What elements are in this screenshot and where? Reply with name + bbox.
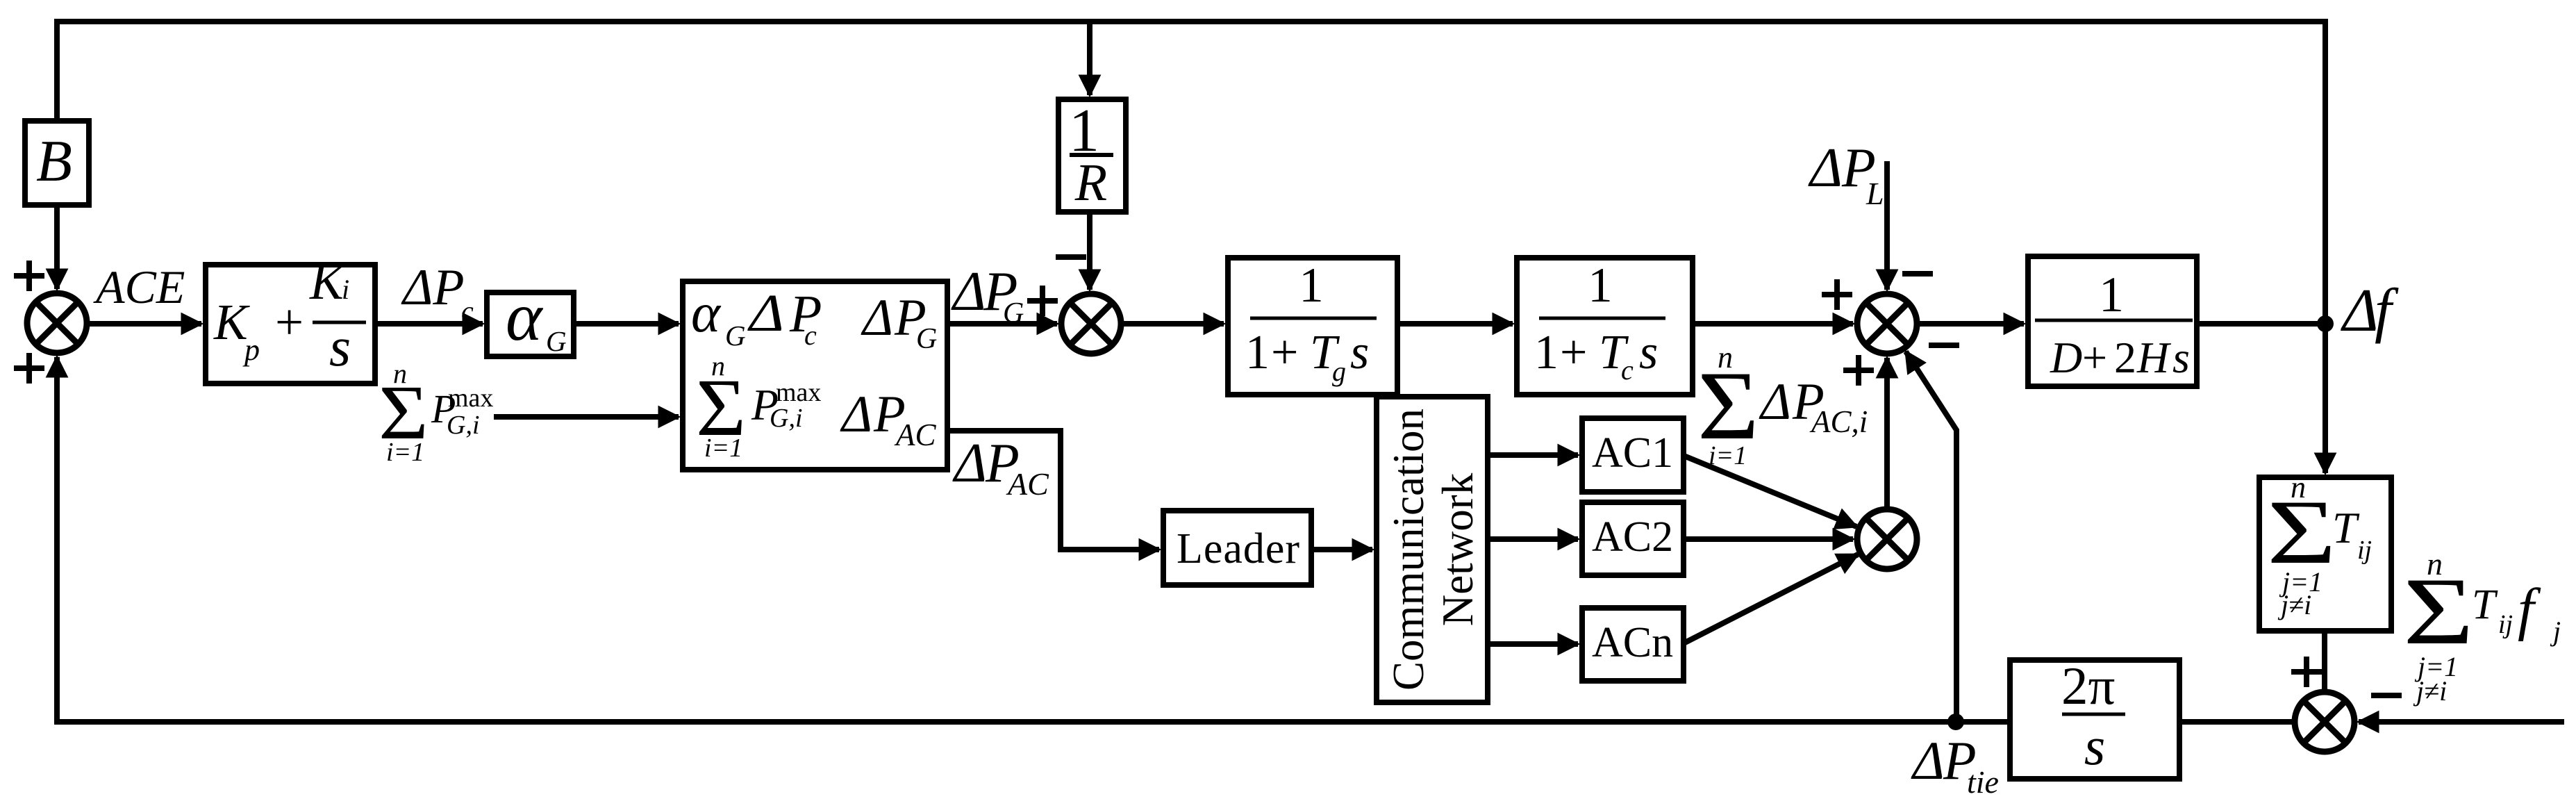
wire AC1 to summing junction S4 [1682,455,1856,527]
svg-text:max: max [448,384,493,413]
wire MPC DeltaPAC output to Leader [947,431,1159,550]
svg-text:α: α [506,278,544,355]
label 1/(1+Tgs) inside governor block [1245,258,1377,387]
svg-text:ij: ij [2498,610,2513,639]
svg-text:1: 1 [2099,267,2124,322]
wire sum Tij fj input to S5 [2359,719,2564,725]
summing junction S1 [27,293,87,353]
svg-text:Δ: Δ [952,433,987,494]
sign plus at S3 left [1825,292,1850,297]
label DeltaPAC inside MPC block [840,386,936,452]
sign plus at S1 top [17,273,42,279]
svg-text:ij: ij [2357,536,2372,565]
wire B to summing junction S1 [54,205,60,289]
sign plus at S1 bottom [17,365,42,371]
svg-text:Leader: Leader [1177,525,1300,572]
svg-text:+: + [275,294,304,350]
sign minus at S5 right [2374,693,2399,698]
svg-text:G: G [546,325,567,357]
svg-text:max: max [776,378,821,407]
svg-text:1: 1 [1245,326,1270,379]
svg-text:Network: Network [1434,472,1482,626]
wire S2 to governor block [1121,321,1224,327]
svg-text:f: f [2375,277,2399,345]
wire Delta-f node down to Tij block [2322,324,2328,473]
svg-text:α: α [691,283,722,344]
wire load block to Delta-f node [2197,321,2325,327]
svg-text:c: c [1621,354,1634,386]
block alphaG [487,292,574,356]
svg-text:Δ: Δ [840,386,872,443]
block sum Tij [2259,477,2391,631]
label sum Tij fj [2403,546,2561,707]
wire AC2 to S4 [1682,536,1853,542]
svg-text:Δ: Δ [2341,277,2379,345]
svg-text:ΔP: ΔP [401,259,465,316]
node Delta-f [2317,315,2334,332]
wire 1/R tap from top line [1087,24,1092,95]
svg-text:H: H [2136,333,2172,382]
svg-text:G,i: G,i [770,404,803,433]
block turbine 1/(1+Tcs) [1517,258,1693,395]
wire Communication Network to AC2 [1488,536,1578,542]
svg-text:AC1: AC1 [1592,429,1673,477]
wire S3 to load block [1917,321,2024,327]
svg-text:i: i [342,274,349,305]
svg-text:c: c [461,295,474,327]
svg-text:tie: tie [1967,764,1999,800]
svg-text:s: s [2172,333,2190,382]
svg-text:K: K [309,254,346,310]
block tie-line 2pi/s [2010,660,2179,779]
svg-text:R: R [1074,154,1107,212]
svg-text:2: 2 [2114,333,2136,382]
wire Kp to alphaG block [375,321,483,327]
label Delta-f [2341,277,2399,345]
wire governor to turbine block [1397,321,1513,327]
svg-text:s: s [1350,326,1369,379]
label sum Tij inside block [2267,470,2372,620]
label 2pi/s inside tie-line block [2061,656,2125,776]
wire turbine to summing junction S3 [1693,321,1853,327]
label sum DeltaPAC,i [1697,340,1868,470]
svg-text:c: c [804,320,817,351]
svg-text:AC,i: AC,i [1809,404,1868,439]
label DeltaPtie [1911,730,1999,800]
summing junction S4 [1857,509,1917,569]
svg-text:p: p [242,333,260,367]
svg-text:j≠i: j≠i [2277,589,2311,620]
svg-text:L: L [1865,176,1884,211]
wire S5 to 2pi/s block [2179,719,2295,725]
svg-text:AC: AC [894,418,936,452]
block ACn [1582,608,1684,681]
svg-text:Communication: Communication [1384,409,1433,691]
wire ACn to S4 [1682,554,1858,644]
svg-text:G: G [1003,297,1024,329]
wire Leader to Communication Network [1311,547,1372,552]
wire DeltaPtie riser to S3 [1906,352,1956,722]
wire DeltaPL to S3 [1884,161,1890,290]
sign minus at S3 right bottom [1931,343,1956,348]
summing junction S3 [1857,294,1917,354]
label DeltaPG on wire [951,260,1024,329]
sign plus at S2 left [1030,298,1055,304]
svg-text:Δ: Δ [747,284,784,343]
svg-text:AC2: AC2 [1592,513,1673,561]
label DeltaPL [1808,138,1884,211]
svg-text:Δ: Δ [1759,373,1791,431]
label sum Pmax G,i input [379,358,493,467]
block load 1/(D+2Hs) [2028,256,2197,386]
svg-text:G: G [916,323,937,355]
svg-text:+: + [1560,326,1587,379]
block AC2 [1582,502,1684,575]
sign plus at S5 top [2294,669,2319,675]
label 1/(D+2Hs) inside load block [2035,267,2193,382]
wire top feedback line [57,22,2325,321]
wire alphaG to MPC block [574,321,679,327]
node DeltaPtie [1947,714,1964,730]
svg-text:f: f [2518,577,2541,642]
label Communication Network (rotated) [1384,409,1482,691]
svg-text:i=1: i=1 [1709,441,1747,470]
svg-text:Δ: Δ [861,289,893,347]
svg-text:+: + [1271,326,1298,379]
svg-text:ACE: ACE [93,261,185,313]
summing junction S5 [2295,692,2354,752]
wire bottom feedback line from 2pi/s output to S1 [57,357,2010,722]
label Kp + Ki/s inside PI block [213,254,366,378]
sign minus at S2 top [1058,254,1083,260]
block AC1 [1582,418,1684,492]
svg-text:Δ: Δ [1911,730,1945,791]
summing junction S2 [1061,294,1121,354]
svg-text:AC: AC [1006,466,1049,502]
label DeltaPG inside MPC block [861,289,937,355]
svg-text:j: j [2550,616,2561,647]
svg-text:g: g [1332,356,1346,387]
block MPC (alphaG DeltaPc / sum Pmax) [683,281,947,470]
svg-text:i=1: i=1 [704,434,742,463]
wire sum Pmax input to MPC block [494,414,679,420]
svg-text:1: 1 [1534,326,1559,379]
label sum Pmax inside MPC block [696,350,821,463]
wire Tij block to summing junction S5 [2322,631,2327,692]
block PI controller Kp+Ki/s [206,265,375,384]
wire Communication Network to ACn [1488,641,1578,647]
block Communication Network [1377,397,1488,702]
sign plus at S3 bottom [1846,368,1871,373]
block B [25,121,89,205]
wire MPC DeltaPG output to summing junction S2 [947,321,1057,327]
wire S1 to Kp block (ACE) [87,321,201,327]
block 1/R [1058,99,1126,212]
svg-text:G,i: G,i [447,411,480,440]
svg-text:+: + [2082,333,2107,382]
svg-text:ACn: ACn [1592,619,1673,666]
label DeltaPAC on wire [952,433,1049,502]
wire 1/R to S2 [1087,212,1092,290]
svg-text:T: T [2332,503,2360,552]
svg-text:Σ: Σ [2403,559,2474,665]
svg-text:1: 1 [1299,258,1324,313]
block governor 1/(1+Tgs) [1228,258,1397,395]
svg-text:D: D [2050,333,2082,382]
svg-text:j≠i: j≠i [2413,675,2447,707]
wire S4 to S3 [1884,358,1890,509]
svg-text:2π: 2π [2061,656,2115,716]
block Leader [1163,511,1311,585]
svg-text:G: G [725,320,746,352]
wire Communication Network to AC1 [1488,452,1578,458]
svg-text:Δ: Δ [951,260,986,322]
svg-text:T: T [2472,582,2498,628]
svg-text:i=1: i=1 [386,438,424,467]
label alphaG DeltaPc inside MPC block [691,283,822,352]
label 1/(1+Tcs) inside turbine block [1534,258,1665,386]
svg-text:s: s [329,317,351,378]
svg-text:s: s [2084,716,2105,776]
svg-text:1: 1 [1588,258,1613,313]
sign minus at S3 top right [1905,271,1930,277]
svg-text:B: B [36,129,72,194]
svg-text:Δ: Δ [1808,138,1843,199]
label 1/R inside block [1069,97,1113,212]
svg-text:s: s [1639,326,1658,379]
